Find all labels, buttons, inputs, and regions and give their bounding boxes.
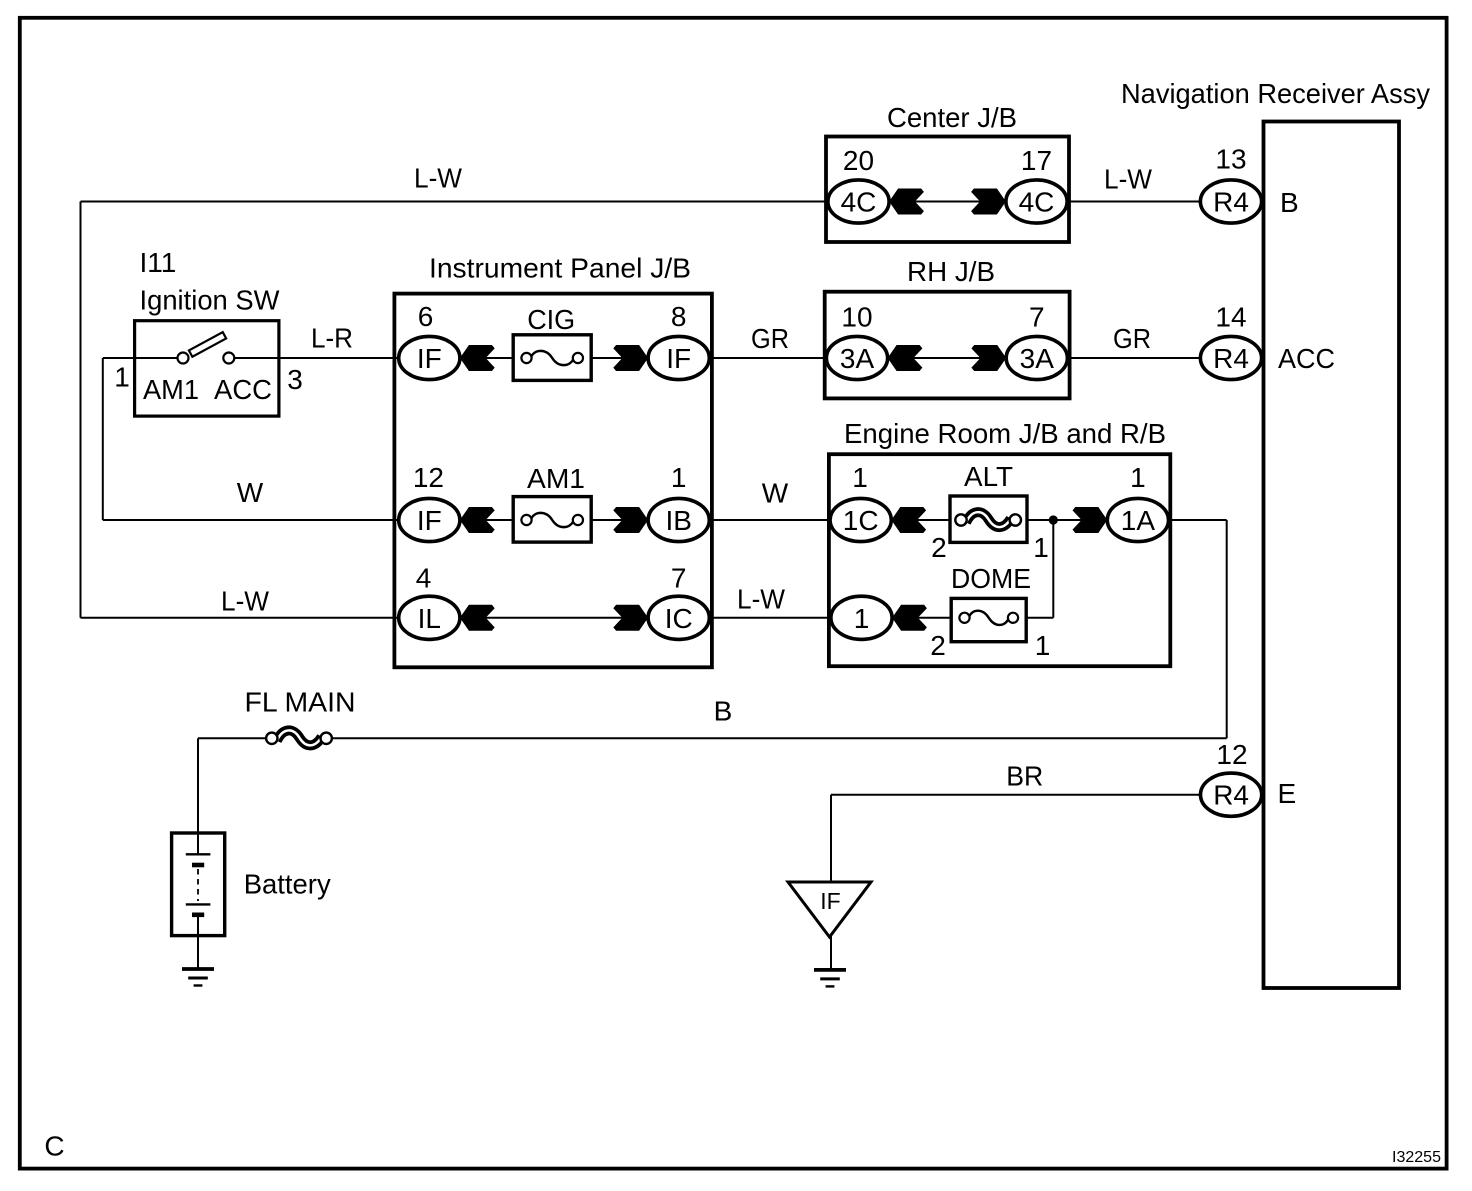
- arrow left (ER row2): [892, 605, 927, 631]
- wire IP row2 left segment: [458, 519, 527, 521]
- connector 3A pin 7: [1006, 336, 1067, 379]
- wire IP row3: [458, 617, 648, 619]
- svg-text:4C: 4C: [1019, 187, 1055, 218]
- arrow right (IP row2): [613, 507, 648, 533]
- svg-text:10: 10: [841, 302, 872, 333]
- fuse DOME box: [951, 598, 1026, 641]
- fuse CIG box: [513, 335, 591, 381]
- svg-text:1: 1: [671, 462, 687, 493]
- connector IL pin 4: [399, 596, 460, 639]
- wire B (FL MAIN to 1A vertical): [326, 737, 1227, 739]
- connector 3A pin 10: [826, 336, 887, 379]
- svg-text:1C: 1C: [843, 505, 879, 536]
- wire W (to IF pin12): [103, 519, 400, 521]
- connector 1 (DOME row): [831, 596, 892, 639]
- wire IP row1 left segment: [458, 357, 527, 359]
- svg-text:L-W: L-W: [414, 163, 463, 194]
- svg-text:12: 12: [1216, 739, 1247, 770]
- arrow left (RH J/B): [888, 345, 923, 371]
- wire GR (IF pin8 to RH J/B): [708, 357, 827, 359]
- wire BR vertical down to IF triangle: [830, 795, 832, 883]
- svg-text:I11: I11: [140, 247, 177, 278]
- svg-text:1: 1: [852, 462, 868, 493]
- arrow left (Center J/B): [889, 189, 924, 215]
- fusible link ALT box: [950, 496, 1027, 542]
- arrow right (Center J/B): [971, 189, 1006, 215]
- svg-text:L-R: L-R: [311, 323, 353, 354]
- connector IF pin 6: [399, 336, 460, 379]
- svg-text:20: 20: [843, 145, 874, 176]
- svg-text:L-W: L-W: [1104, 164, 1153, 195]
- svg-text:1: 1: [854, 603, 870, 634]
- svg-text:W: W: [762, 478, 789, 509]
- wire BR (ground IF to R4 pin12): [831, 794, 1202, 796]
- connector R4 pin 13: [1200, 180, 1261, 223]
- svg-text:AM1: AM1: [143, 374, 199, 405]
- svg-text:Ignition SW: Ignition SW: [140, 285, 281, 316]
- svg-text:14: 14: [1215, 302, 1246, 333]
- svg-text:FL MAIN: FL MAIN: [245, 687, 356, 718]
- svg-text:Center J/B: Center J/B: [887, 102, 1017, 133]
- svg-text:L-W: L-W: [221, 586, 270, 617]
- wire IF triangle to ground: [830, 936, 832, 968]
- wire L-W top horizontal (IL to Center J/B): [81, 201, 829, 203]
- switch contact AM1: [178, 353, 189, 364]
- arrow left (IP row3): [460, 605, 495, 631]
- connector R4 pin 12: [1201, 773, 1262, 816]
- svg-text:7: 7: [671, 563, 687, 594]
- switch contact ACC: [223, 353, 234, 364]
- ground point IF triangle: [788, 882, 871, 937]
- connector IF pin 8: [648, 336, 709, 379]
- svg-text:IF: IF: [417, 343, 442, 374]
- svg-text:2: 2: [931, 532, 947, 563]
- svg-text:Navigation Receiver Assy: Navigation Receiver Assy: [1121, 78, 1430, 109]
- svg-text:GR: GR: [751, 323, 789, 354]
- arrow right (IP row3): [613, 605, 648, 631]
- wire vertical pin1 down: [102, 358, 104, 520]
- wire vertical battery to FL MAIN: [197, 738, 199, 834]
- svg-text:IC: IC: [665, 603, 693, 634]
- junction box Engine Room J/B and R/B: [829, 454, 1170, 666]
- wire L-W (IC pin7 to engine room): [708, 617, 833, 619]
- wire ER row2 right segment: [1013, 617, 1053, 619]
- svg-text:1: 1: [1130, 462, 1146, 493]
- svg-text:IB: IB: [665, 505, 691, 536]
- svg-text:RH J/B: RH J/B: [907, 256, 995, 287]
- svg-text:GR: GR: [1113, 323, 1151, 354]
- svg-text:ACC: ACC: [1278, 343, 1335, 374]
- connector 1C pin 1: [830, 498, 891, 541]
- wire from Ignition SW pin1: [103, 357, 137, 359]
- svg-text:AM1: AM1: [527, 463, 585, 494]
- svg-text:R4: R4: [1213, 187, 1249, 218]
- svg-text:ALT: ALT: [964, 461, 1013, 492]
- wire ER row1 right segment (ALT to 1A): [1015, 519, 1108, 521]
- junction box Center J/B: [826, 137, 1069, 243]
- fuse AM1 box: [513, 497, 591, 542]
- wire L-R (Ignition SW to IF pin6): [276, 357, 400, 359]
- svg-text:1: 1: [1033, 532, 1049, 563]
- svg-text:DOME: DOME: [951, 563, 1031, 594]
- wire inside Center J/B: [880, 201, 1016, 203]
- svg-text:IF: IF: [820, 888, 840, 914]
- svg-text:1A: 1A: [1121, 505, 1156, 536]
- arrow left (ER row1): [891, 507, 926, 533]
- svg-text:R4: R4: [1213, 343, 1249, 374]
- svg-text:2: 2: [930, 630, 946, 661]
- wire GR (RH J/B to R4 pin14): [1066, 357, 1202, 359]
- arrow left (IP row1): [460, 345, 495, 371]
- wire L-W row3 left (to IL): [81, 617, 401, 619]
- box Navigation Receiver Assy: [1264, 122, 1400, 989]
- junction dot: [1049, 515, 1058, 524]
- svg-text:12: 12: [413, 462, 444, 493]
- svg-text:1: 1: [114, 362, 130, 393]
- svg-text:B: B: [1280, 187, 1299, 218]
- svg-text:3A: 3A: [840, 343, 875, 374]
- wire battery to ground: [197, 934, 199, 968]
- svg-text:Instrument Panel J/B: Instrument Panel J/B: [429, 252, 691, 283]
- wire ER row1 left segment: [890, 519, 961, 521]
- svg-text:E: E: [1278, 778, 1297, 809]
- wire IP row1 right segment: [578, 357, 648, 359]
- switch lever: [189, 332, 226, 357]
- wire DOME branch vertical: [1052, 520, 1054, 618]
- svg-text:4C: 4C: [841, 187, 877, 218]
- wire ER row2 left segment: [891, 617, 965, 619]
- switch I11 Ignition SW box: [135, 321, 279, 416]
- svg-text:I32255: I32255: [1392, 1149, 1441, 1166]
- arrow right (ER row1): [1073, 507, 1108, 533]
- svg-text:IF: IF: [666, 343, 691, 374]
- svg-text:3A: 3A: [1020, 343, 1055, 374]
- connector 4C pin 20: [828, 180, 889, 223]
- wire B (battery to FL MAIN): [198, 737, 272, 739]
- ground (IF): [814, 968, 846, 972]
- wire inside Ignition SW left: [136, 357, 179, 359]
- connector 1A pin 1: [1107, 498, 1168, 541]
- svg-text:7: 7: [1029, 302, 1045, 333]
- svg-text:W: W: [237, 477, 264, 508]
- svg-text:BR: BR: [1006, 761, 1043, 792]
- svg-text:13: 13: [1215, 144, 1246, 175]
- ground (battery): [182, 967, 214, 971]
- svg-text:6: 6: [418, 301, 434, 332]
- svg-text:4: 4: [416, 563, 432, 594]
- wire inside RH J/B: [879, 357, 1015, 359]
- svg-text:Battery: Battery: [244, 869, 331, 900]
- wire vertical 1A down to B wire: [1226, 520, 1228, 738]
- svg-text:B: B: [714, 696, 733, 727]
- junction box Instrument Panel J/B: [394, 294, 712, 668]
- connector IF pin 12: [399, 498, 460, 541]
- svg-text:L-W: L-W: [737, 584, 786, 615]
- arrow right (IP row1): [613, 345, 648, 371]
- svg-text:17: 17: [1021, 145, 1052, 176]
- svg-text:C: C: [44, 1130, 64, 1161]
- connector R4 pin 14: [1200, 336, 1261, 379]
- wire L-W vertical left: [80, 202, 82, 618]
- svg-text:8: 8: [671, 301, 687, 332]
- junction box RH J/B: [825, 292, 1070, 399]
- fusible link FL MAIN: [277, 730, 322, 745]
- wire from 1A to right: [1166, 519, 1227, 521]
- svg-text:IF: IF: [417, 505, 442, 536]
- wire inside Ignition SW right: [233, 357, 278, 359]
- connector IC pin 7: [648, 596, 709, 639]
- arrow right (RH J/B): [971, 345, 1006, 371]
- svg-text:3: 3: [287, 364, 303, 395]
- svg-text:ACC: ACC: [214, 374, 272, 405]
- battery: [172, 833, 225, 936]
- svg-text:R4: R4: [1213, 780, 1249, 811]
- wire W (IB pin1 to 1C): [708, 519, 832, 521]
- connector 4C pin 17: [1006, 180, 1067, 223]
- svg-text:CIG: CIG: [527, 304, 575, 335]
- svg-text:Engine Room J/B and R/B: Engine Room J/B and R/B: [844, 418, 1166, 449]
- svg-text:1: 1: [1035, 630, 1051, 661]
- connector IB pin 1: [648, 498, 709, 541]
- wire IP row2 right segment: [578, 519, 648, 521]
- svg-text:IL: IL: [418, 603, 441, 634]
- arrow left (IP row2): [460, 507, 495, 533]
- wire L-W (Center J/B to R4 pin13): [1066, 201, 1202, 203]
